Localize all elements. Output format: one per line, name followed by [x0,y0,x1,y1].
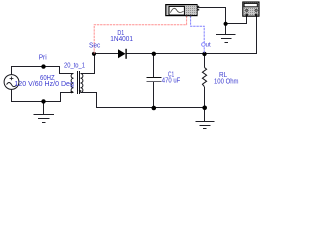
svg-text:Sec: Sec [89,42,101,49]
svg-text:120 V/60 Hz/0 Deg: 120 V/60 Hz/0 Deg [14,81,74,88]
svg-text:Pri: Pri [39,54,47,61]
svg-text:ut: ut [206,42,211,49]
svg-text:20_to_1: 20_to_1 [64,63,85,70]
svg-text:100 Ohm: 100 Ohm [214,78,239,85]
svg-text:1N4001: 1N4001 [110,36,133,43]
svg-text:470 uF: 470 uF [162,78,181,85]
